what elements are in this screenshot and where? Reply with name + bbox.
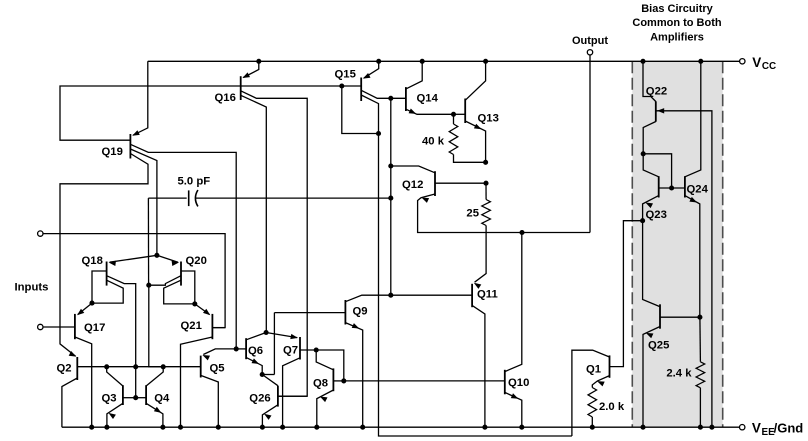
terminal input inverting [38, 324, 43, 329]
Q4 emitter arrow [154, 407, 162, 413]
junction Q24 collector on VCC rail [698, 59, 703, 64]
wire VCC top rail [148, 60, 740, 62]
label 2.0 k [599, 401, 625, 413]
label Q1 [586, 364, 601, 376]
terminal VCC [740, 55, 777, 72]
svg-text:Q25: Q25 [648, 340, 669, 352]
label Q26 [249, 392, 270, 404]
junction Q20 base / Q21 emitter node [192, 301, 197, 306]
svg-text:Bias Circuitry: Bias Circuitry [641, 3, 713, 15]
wire Q9 emitter [345, 323, 362, 428]
label Q14 [417, 93, 439, 105]
Q20 emitter arrow [172, 261, 180, 266]
svg-text:V: V [752, 55, 761, 70]
resistor R 2.0k [588, 388, 597, 418]
wire Q18 base [92, 271, 107, 303]
transistor Q15 bar [360, 78, 362, 102]
wire Q21 collector [181, 337, 213, 427]
svg-text:Q19: Q19 [102, 146, 123, 158]
junction input pair emitter node [154, 253, 159, 258]
wire Q10 emitter [505, 392, 522, 427]
svg-text:/Gnd: /Gnd [774, 421, 804, 436]
Q12 emitter arrow [422, 198, 430, 203]
capacitor C1 plates [189, 190, 198, 206]
transistor Q19 bar [129, 134, 131, 159]
svg-text:5.0 pF: 5.0 pF [178, 176, 211, 188]
wire Q23 emitter [643, 196, 659, 221]
junction Q18 C1 column [133, 364, 138, 369]
wire Q25 base [660, 316, 700, 318]
capacitor C1 left wire [148, 197, 186, 199]
svg-text:Q15: Q15 [335, 69, 356, 81]
wire Q2 base line [77, 366, 200, 368]
junction Q22 base / Q23 collector node [641, 151, 646, 156]
wire Q10 collector [505, 233, 522, 372]
Q1 emitter arrow [597, 381, 605, 386]
wire R2.0k bottom [591, 417, 593, 427]
wire Q17 collector [75, 337, 92, 427]
junction Q10 collector node [519, 230, 524, 235]
junction Q13 collector on VCC rail [483, 59, 488, 64]
wire R25 top [485, 183, 487, 199]
wire Q10 base line [344, 380, 505, 382]
Q22 emitter arrow [657, 108, 664, 113]
junction Q18 base / Q17 emitter node [89, 301, 94, 306]
Q7 emitter arrow [290, 334, 298, 339]
label Q12 [402, 179, 423, 191]
svg-text:Q8: Q8 [313, 377, 328, 389]
wire Q12 emitter [418, 194, 590, 233]
wire Q25 emitter [643, 327, 660, 428]
Q21 emitter arrow [203, 309, 210, 316]
transistor Q3 bar [122, 385, 124, 405]
junction Q5 collector on VEE rail [216, 425, 221, 430]
wire Q7 emitter [266, 333, 297, 338]
wire Q13 emitter [465, 121, 485, 162]
wire Q16 collector2 to Q6/Q7 emitters [241, 95, 267, 332]
wire R40k bottom [454, 155, 486, 163]
transistor Q14 bar [405, 87, 407, 111]
wire Q15 base tie-down [342, 86, 379, 134]
junction Q14 collector on VCC rail [420, 59, 425, 64]
junction Q25 emitter on VEE rail [640, 425, 645, 430]
svg-text:40 k: 40 k [422, 136, 445, 148]
wire Q6 base [236, 348, 246, 350]
transistor Q20 bar [180, 262, 182, 286]
svg-text:Output: Output [572, 35, 608, 47]
svg-text:Q23: Q23 [646, 209, 667, 221]
junction Q7 collector on VEE rail [280, 425, 285, 430]
svg-text:25: 25 [466, 208, 479, 220]
junction Q4 emitter on VEE rail [160, 425, 165, 430]
junction R40k / Q13 emitter [483, 160, 488, 165]
capacitor C1 right wire [196, 197, 391, 199]
wire Q22 collector [643, 61, 656, 101]
transistor Q26 bar [277, 386, 279, 407]
svg-text:Q1: Q1 [586, 364, 601, 376]
svg-text:Q6: Q6 [248, 345, 263, 357]
wire input- to Q17 base [43, 326, 75, 328]
wire Q19 emitter from VCC rail [133, 61, 148, 135]
Q8 emitter arrow [320, 397, 328, 403]
junction Q23/Q24 base node [669, 185, 674, 190]
wire Q15 collector2 bias line to Q1 base region [361, 95, 572, 436]
wire Q22 emitter [656, 111, 712, 427]
resistor R 40k [449, 124, 458, 155]
label 25 [466, 208, 479, 220]
wire Q20 collector1 to cap [149, 276, 181, 286]
junction Q26 emitter on VEE rail [260, 425, 265, 430]
transistor Q2 bar [76, 357, 78, 380]
wire Q18 collector2 tie to base [92, 280, 123, 303]
wire Q14 collector [406, 61, 422, 89]
transistor Q21 bar [211, 314, 213, 339]
svg-text:CC: CC [762, 61, 776, 72]
wire Q3 collector [107, 367, 123, 386]
label Q9 [353, 306, 368, 318]
svg-text:2.0 k: 2.0 k [599, 401, 625, 413]
wire Q11 emitter down [472, 305, 485, 427]
label bias circuitry [632, 3, 721, 44]
wire Q5 emitter [203, 349, 236, 355]
transistor Q23 bar [658, 176, 660, 197]
wire Q26 collector [262, 375, 278, 386]
svg-text:Inputs: Inputs [15, 282, 49, 294]
label Q8 [313, 377, 328, 389]
label Q6 [248, 345, 263, 357]
junction Q21 collector on VEE rail [178, 425, 183, 430]
junction R2.0k on VEE rail [590, 425, 595, 430]
Q24 emitter arrow [689, 197, 697, 203]
svg-text:Q3: Q3 [102, 393, 117, 405]
Q9 emitter arrow [352, 323, 360, 328]
label Q24 [687, 184, 709, 196]
junction Q3 collector [104, 364, 109, 369]
Q18 emitter arrow [109, 261, 117, 266]
bias circuitry shaded region [632, 61, 722, 427]
wire Q1 base [610, 221, 643, 367]
terminal Output [572, 35, 608, 55]
wire Q24 emitter [685, 196, 700, 318]
dashed border left of bias region [631, 61, 633, 427]
junction Q3 emitter on VEE rail [104, 425, 109, 430]
wire R40k top [453, 114, 455, 124]
svg-text:2.4 k: 2.4 k [666, 368, 692, 380]
transistor Q13 bar [464, 99, 466, 124]
wire R2.4k top [699, 317, 702, 362]
label Q22 [646, 85, 667, 97]
wire Q2 collector to rail [62, 378, 77, 427]
svg-text:V: V [752, 421, 761, 436]
svg-text:Q26: Q26 [249, 392, 270, 404]
Q3 emitter arrow [108, 413, 116, 419]
label 5.0 pF [178, 176, 211, 188]
junction Q11 emitter on VEE rail [482, 425, 487, 430]
junction Q23 emitter / Q1 base node [640, 218, 645, 223]
svg-text:Q9: Q9 [353, 306, 368, 318]
wire Q16 emitter [243, 61, 258, 77]
wire Q12 collector to node [391, 166, 435, 173]
junction Q8 base node [341, 378, 346, 383]
wire Q9 base feed down [273, 313, 275, 375]
junction Q12 collector node [388, 163, 393, 168]
wire Q20 base [181, 271, 195, 304]
wire Q7 collector [283, 358, 300, 427]
wire Q17 emitter [78, 303, 92, 314]
svg-text:Amplifiers: Amplifiers [650, 32, 704, 44]
wire Q4 base [136, 397, 146, 399]
Q25 emitter arrow [646, 333, 654, 338]
junction Q15 base/collector2 tie [376, 131, 381, 136]
junction Q15 base tap [339, 83, 344, 88]
Q11 emitter arrow [474, 283, 482, 289]
label Q16 [215, 92, 236, 104]
wire Q20 collector2 tie to base [164, 280, 195, 304]
junction Q22 emitter on VEE rail [709, 425, 714, 430]
label Q5 [210, 363, 225, 375]
label Q20 [186, 255, 207, 267]
Q23 emitter arrow [645, 203, 653, 209]
wire Q19 collector3 to Q2 emitter [60, 154, 148, 357]
label Q15 [335, 69, 356, 81]
transistor Q8 bar [332, 368, 334, 391]
Q19 emitter arrow [132, 130, 140, 136]
wire Q8 collector [316, 350, 333, 370]
wire cap line down to base line [149, 285, 163, 367]
label Q18 [82, 255, 103, 267]
label Q2 [57, 363, 72, 375]
transistor Q10 bar [504, 370, 506, 395]
svg-text:Q10: Q10 [508, 377, 529, 389]
resistor R 25 [482, 200, 491, 226]
svg-text:Q2: Q2 [57, 363, 72, 375]
wire Q16 collector1 to Q26 base [241, 91, 308, 396]
wire Q23 base [659, 187, 685, 189]
wire Q3 base [123, 397, 136, 399]
wire Q23/Q24 base tie [643, 154, 671, 188]
resistor R 2.4k [696, 362, 705, 388]
label 2.4 k [666, 368, 692, 380]
junction at Q9 collector [388, 293, 393, 298]
junction Q10 emitter on VEE rail [519, 425, 524, 430]
terminal input noninverting [38, 231, 43, 236]
junction Q4 collector / cap line [161, 364, 166, 369]
svg-text:Q7: Q7 [283, 345, 298, 357]
junction Q3/Q4 base node [133, 395, 138, 400]
wire VEE bottom rail [62, 426, 740, 428]
wire cap to base-line node [147, 198, 149, 285]
label Q10 [508, 377, 529, 389]
Q15 emitter arrow [363, 73, 371, 79]
junction Q22 collector on VCC rail [640, 59, 645, 64]
svg-text:Q14: Q14 [417, 93, 439, 105]
wire Q23 collector [643, 154, 659, 177]
junction Q9 emitter on VEE rail [360, 425, 365, 430]
wire R25 bottom / Q11 emitter [475, 226, 487, 283]
wire Q26 emitter [262, 405, 278, 427]
wire Q26 base [278, 395, 307, 397]
wire Q9 base [274, 312, 345, 314]
junction Q6/Q7 emitter node [264, 330, 269, 335]
label Inputs [15, 282, 49, 294]
label Q13 [478, 113, 499, 125]
svg-text:Q13: Q13 [478, 113, 499, 125]
transistor Q11 bar [471, 284, 473, 307]
transistor Q24 bar [684, 176, 686, 197]
transistor Q18 bar [106, 262, 108, 286]
wire Q19 base [60, 86, 361, 140]
wire node column x391 [390, 98, 392, 295]
Q6 emitter arrow [252, 358, 260, 364]
wire Q5 collector [201, 375, 219, 427]
wire Q1 emitter [592, 376, 609, 388]
wire Q18 collector1 to Q3/Q4 bases [107, 276, 136, 398]
wire Q4 collector [146, 367, 163, 386]
label Q23 [646, 209, 667, 221]
label Q17 [84, 322, 105, 334]
wire Q19 collector1 to node A [130, 144, 236, 349]
svg-text:Q22: Q22 [646, 85, 667, 97]
transistor Q1 bar [609, 355, 611, 377]
junction Q25 base node [697, 315, 702, 320]
junction Q6 emitter / Q26 collector [260, 372, 265, 377]
junction Q8 emitter on VEE rail [314, 425, 319, 430]
junction Q14 emitter / Q13 base / R 40k [451, 112, 456, 117]
wire R2.4k bottom [699, 388, 701, 427]
svg-text:Q11: Q11 [477, 289, 498, 301]
transistor Q25 bar [659, 304, 661, 328]
wire Q9 base feed horizontal [262, 374, 274, 376]
transistor Q5 bar [200, 356, 202, 378]
transistor Q4 bar [145, 385, 147, 405]
label Q7 [283, 345, 298, 357]
junction Q17 collector on VEE rail [89, 425, 94, 430]
svg-text:Q24: Q24 [687, 184, 709, 196]
svg-text:Q20: Q20 [186, 255, 207, 267]
wire Q6 collector [246, 333, 266, 340]
wire Q3 emitter [107, 403, 123, 427]
wire Q6 emitter [246, 357, 262, 374]
transistor Q17 bar [74, 314, 76, 339]
svg-text:Q5: Q5 [210, 363, 225, 375]
wire Q15 collector1 to Q14 base [361, 90, 406, 98]
wire Q11 base line [345, 295, 472, 302]
Q14 emitter arrow [409, 109, 417, 114]
wire Q15 emitter [364, 61, 379, 78]
terminal VEE/Gnd [740, 421, 804, 438]
junction Q15 collector1 / Q14 base node [388, 96, 393, 101]
transistor Q7 bar [299, 337, 301, 360]
wire Q22 base [643, 122, 656, 154]
svg-text:Q4: Q4 [154, 393, 170, 405]
Q5 emitter arrow [202, 355, 210, 360]
wire Q7 base chain [300, 350, 344, 381]
wire Q14 emitter [406, 109, 454, 114]
wire Q1 collector [572, 350, 610, 436]
label Q25 [648, 340, 669, 352]
wire Q20 emitter [157, 255, 178, 262]
label 40 k [422, 136, 445, 148]
transistor Q6 bar [245, 338, 247, 359]
label Q21 [181, 320, 202, 332]
dashed border right of bias region [722, 61, 724, 427]
wire Q8 base [333, 380, 343, 382]
junction Q12 base node [483, 181, 488, 186]
Q2 emitter arrow [69, 351, 77, 357]
junction Q15 emitter on VCC rail [376, 59, 381, 64]
wire Q13 base [454, 113, 466, 115]
wire Q13 collector [465, 61, 485, 100]
junction Q5 emitter node A [234, 346, 239, 351]
label Q11 [477, 289, 498, 301]
transistor Q12 bar [434, 171, 436, 196]
wire output stem [589, 55, 591, 233]
junction cap / Q20 collector1 [146, 283, 151, 288]
wire input+ to Q21 base [43, 234, 225, 328]
svg-text:Common to Both: Common to Both [632, 17, 721, 29]
wire Q4 emitter [146, 403, 163, 427]
wire Q19 collector2 to input pair emitters [130, 149, 157, 255]
junction R2.4k on VEE rail [698, 425, 703, 430]
wire Q21 emitter [195, 304, 210, 315]
transistor Q16 bar [240, 76, 242, 100]
Q10 emitter arrow [511, 393, 519, 398]
label Q3 [102, 393, 117, 405]
junction cap right end [388, 196, 393, 201]
svg-text:Q16: Q16 [215, 92, 236, 104]
wire Q18 emitter [110, 255, 157, 262]
junction Q7 base / Q8 collector [314, 347, 319, 352]
transistor Q22 bar [655, 101, 657, 121]
wire Q24 collector [685, 61, 701, 177]
label Q19 [102, 146, 123, 158]
svg-text:Q21: Q21 [181, 320, 202, 332]
wire Q25 collector [643, 221, 660, 307]
label Q4 [154, 393, 170, 405]
transistor Q9 bar [344, 300, 346, 325]
svg-text:Q17: Q17 [84, 322, 105, 334]
Q16 emitter arrow [242, 72, 250, 78]
junction Q16 emitter on VCC rail [256, 59, 261, 64]
Q13 emitter arrow [474, 124, 482, 130]
wire Q21 base [212, 327, 225, 329]
svg-text:Q12: Q12 [402, 179, 423, 191]
Q26 emitter arrow [264, 414, 272, 420]
Q17 emitter arrow [77, 309, 84, 316]
svg-text:Q18: Q18 [82, 255, 103, 267]
wire Q12 base [435, 182, 486, 184]
wire Q8 emitter [317, 390, 334, 427]
